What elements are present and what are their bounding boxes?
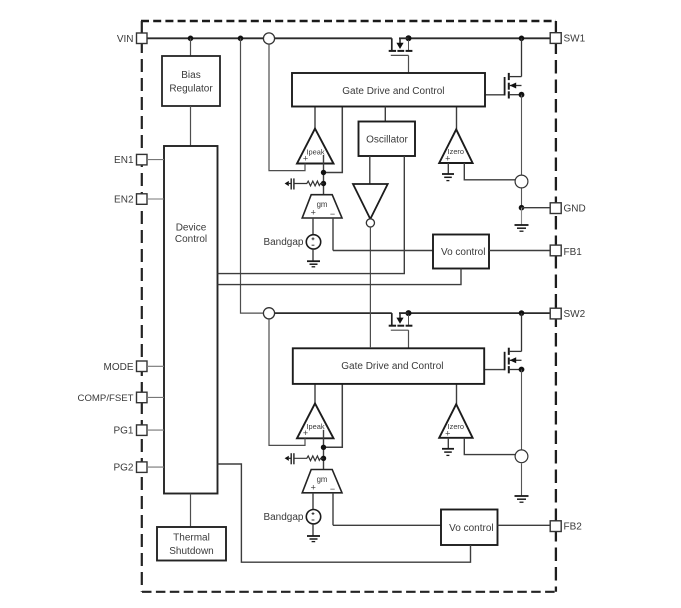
svg-text:Device: Device <box>176 223 207 234</box>
svg-text:Oscillator: Oscillator <box>366 134 408 145</box>
svg-text:COMP/FSET: COMP/FSET <box>78 393 134 404</box>
svg-text:Thermal: Thermal <box>173 533 210 544</box>
svg-text:Regulator: Regulator <box>169 84 213 95</box>
svg-text:Shutdown: Shutdown <box>169 546 213 557</box>
svg-text:GND: GND <box>564 204 586 215</box>
svg-text:FB2: FB2 <box>564 522 583 533</box>
svg-text:SW2: SW2 <box>564 309 586 320</box>
svg-text:EN2: EN2 <box>114 195 134 206</box>
svg-text:FB1: FB1 <box>564 247 583 258</box>
svg-text:Bias: Bias <box>181 70 200 81</box>
svg-text:Gate Drive and Control: Gate Drive and Control <box>341 361 443 372</box>
svg-text:PG2: PG2 <box>113 463 133 474</box>
svg-text:VIN: VIN <box>117 34 134 45</box>
svg-text:Gate Drive and Control: Gate Drive and Control <box>342 86 444 97</box>
svg-text:Control: Control <box>175 234 207 245</box>
svg-text:EN1: EN1 <box>114 155 134 166</box>
svg-text:PG1: PG1 <box>113 426 133 437</box>
svg-text:MODE: MODE <box>104 362 134 373</box>
svg-text:Vo control: Vo control <box>449 523 493 534</box>
svg-text:SW1: SW1 <box>564 34 586 45</box>
svg-text:Vo control: Vo control <box>441 247 485 258</box>
